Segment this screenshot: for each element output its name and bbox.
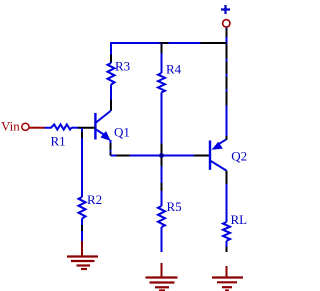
wire RL ground stub (red) xyxy=(226,266,228,277)
wire Q2 collector down (black) xyxy=(226,171,228,184)
wire mid horizontal black segment near Q2 base xyxy=(194,155,209,157)
svg-text:RL: RL xyxy=(231,212,248,227)
svg-text:R4: R4 xyxy=(166,62,182,77)
wire blue dashes in black segment xyxy=(226,59,228,92)
junction tick vertical xyxy=(161,144,163,167)
ground under RL xyxy=(212,278,243,291)
ground under R5 xyxy=(146,278,178,291)
wire RL bottom black segment xyxy=(226,247,228,252)
wire R3 top lead xyxy=(110,42,112,63)
transistor Q1 emitter lead xyxy=(96,130,106,136)
wire R2 bottom black segment xyxy=(81,225,83,231)
wire mid horizontal (Q1 emitter to Q2 base) xyxy=(111,155,210,157)
wire R2 bottom lead xyxy=(81,219,83,242)
svg-text:R3: R3 xyxy=(115,59,130,74)
wire R5 top lead xyxy=(161,166,163,206)
transistor Q2 collector lead xyxy=(211,161,227,171)
svg-text:Q1: Q1 xyxy=(114,124,130,139)
transistor Q1 emitter arrow xyxy=(100,131,110,141)
wire Q2 collector down (blue) xyxy=(226,184,228,222)
wire mid horizontal black segment left xyxy=(117,155,130,157)
wire Q2 emitter black segment xyxy=(226,44,228,106)
wire R2 ground stub (red) xyxy=(81,241,83,256)
wire R1 to Q1 base xyxy=(71,127,79,129)
resistor R3 xyxy=(108,63,115,85)
transistor Q2 emitter diagonal xyxy=(217,139,227,145)
svg-text:Q2: Q2 xyxy=(231,149,247,164)
wire Q1 emitter down xyxy=(110,140,112,156)
wire R2 top lead xyxy=(81,128,83,197)
transistor Q2 emitter arrow xyxy=(212,142,223,150)
terminal + (VCC plus sign) xyxy=(221,5,230,14)
resistor R2 xyxy=(79,197,86,219)
wire R5 ground stub (red) xyxy=(161,263,163,277)
svg-text:Vin: Vin xyxy=(1,119,20,134)
transistor Q2 base bar xyxy=(209,141,211,170)
wire R5 bottom lead xyxy=(161,227,163,252)
wire R4 bottom lead xyxy=(161,92,163,155)
svg-text:R5: R5 xyxy=(167,199,182,214)
wire R3 bottom lead xyxy=(110,85,112,112)
wire base black segment xyxy=(78,127,95,129)
junction node (R4/R5 and mid wire) xyxy=(159,153,164,158)
resistor R4 xyxy=(158,73,165,92)
wire top rail xyxy=(111,42,227,44)
ground under R2 xyxy=(67,257,98,270)
wire R2 black segment below junction xyxy=(81,132,83,139)
transistor Q1 base bar xyxy=(94,113,96,140)
wire Vin stub (red) xyxy=(29,127,45,129)
wire R4 top lead xyxy=(161,43,163,73)
terminal circle Vin xyxy=(22,123,29,130)
wire black segment circle to rail xyxy=(226,29,228,38)
transistor Q1 collector lead xyxy=(96,111,111,123)
resistor R1 xyxy=(45,124,72,129)
resistor R5 xyxy=(158,206,165,227)
wire VCC circle to rail xyxy=(226,28,228,44)
resistor RL xyxy=(223,222,230,241)
wire Q2 emitter from rail xyxy=(226,43,228,140)
terminal circle VCC xyxy=(223,20,230,27)
wire top rail black segments xyxy=(160,42,228,44)
wire RL bottom lead xyxy=(226,241,228,247)
svg-text:R1: R1 xyxy=(51,133,66,148)
svg-text:R2: R2 xyxy=(87,192,102,207)
